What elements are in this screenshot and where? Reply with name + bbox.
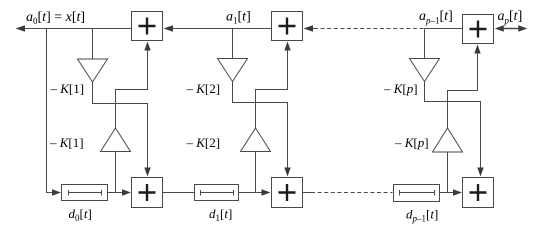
- arrowhead into adder L3 left: [453, 189, 462, 195]
- wire bottom line delay D0 to adder L1: [108, 192, 124, 194]
- delay D2 box: [394, 185, 440, 202]
- delay D0 symbol: [69, 190, 102, 196]
- delay D0 box: [62, 185, 108, 201]
- wire output a_p double arrow line: [498, 28, 524, 30]
- wire bottom line delay D2 to adder L3: [440, 192, 455, 194]
- arrowhead a_p double arrow right head: [518, 25, 527, 31]
- adder L3 plus: [470, 184, 487, 201]
- wire gain3 down output path: [425, 82, 481, 169]
- wire gain1 down output path: [93, 82, 148, 169]
- wire gain2 up output path: [256, 50, 288, 128]
- wire gain3 up output path: [448, 53, 478, 128]
- arrowhead down into adder L2 top: [284, 168, 290, 177]
- adder L3 box: [463, 178, 494, 208]
- svg-text:d0[t]: d0[t]: [69, 206, 92, 223]
- wire bottom line delay D1 to adder L2: [239, 192, 263, 194]
- wire gain1 up output path: [116, 50, 148, 128]
- adder U3 box: [463, 15, 494, 44]
- svg-text:– K[p]: – K[p]: [394, 135, 429, 150]
- gain -Kp up triangle: [433, 128, 463, 152]
- arrowhead down into adder L1 top: [144, 168, 150, 177]
- wire up-tap 1 into gain: [115, 152, 117, 193]
- arrowhead up into adder U3 bottom: [474, 45, 480, 54]
- arrowhead up into adder U1 bottom: [144, 42, 150, 51]
- wire top line left segment: [24, 28, 132, 30]
- arrowhead into adder U1 right: [164, 25, 174, 31]
- wire top line between adder U1 and U2: [172, 28, 271, 30]
- wire bottom line from left vertical to delay D0: [46, 192, 53, 194]
- svg-text:– K[1]: – K[1]: [49, 135, 84, 150]
- adder U2 plus: [279, 18, 296, 35]
- wire up-tap 2 into gain: [255, 152, 257, 193]
- arrowhead a_p double arrow left head: [495, 25, 504, 31]
- svg-text:ap[t]: ap[t]: [498, 9, 523, 26]
- wire top line into adder U3: [425, 28, 463, 30]
- svg-text:– K[2]: – K[2]: [186, 135, 221, 150]
- svg-text:– K[2]: – K[2]: [186, 81, 221, 96]
- wire up-tap 3 into gain: [447, 152, 449, 193]
- wire down-tap 3 into gain: [424, 29, 426, 59]
- adder U1 plus: [139, 18, 156, 35]
- svg-text:– K[1]: – K[1]: [50, 81, 85, 96]
- svg-text:a1[t]: a1[t]: [226, 10, 251, 26]
- wire bottom dashed line: [311, 192, 393, 194]
- delay D1 box: [195, 185, 239, 201]
- gain -K1 down triangle: [78, 59, 108, 82]
- adder L1 plus: [139, 184, 156, 201]
- arrowhead into delay D0 left: [52, 189, 61, 195]
- arrowhead a0 output left: [16, 25, 26, 31]
- wire down-tap 2 into gain: [232, 29, 234, 59]
- wire down-tap 1 into gain: [92, 29, 94, 60]
- adder L1 box: [132, 178, 163, 208]
- gain -K2 up triangle: [241, 128, 271, 152]
- svg-text:– K[p]: – K[p]: [383, 81, 418, 96]
- arrowhead into adder U2 right: [304, 25, 314, 31]
- adder L2 box: [272, 178, 303, 208]
- arrowhead down into adder L3 top: [477, 168, 483, 177]
- arrowhead into adder L2 left: [262, 189, 271, 195]
- arrowhead up into adder U2 bottom: [284, 42, 290, 51]
- gain -Kp down triangle: [410, 59, 440, 82]
- wire bottom line adder L1 to delay D1: [163, 192, 195, 194]
- wire bottom solid stub after adder L2: [303, 192, 312, 194]
- gain -K1 up triangle: [101, 128, 131, 152]
- wire gain2 down output path: [233, 82, 288, 170]
- adder U2 box: [272, 12, 303, 41]
- gain -K2 down triangle: [218, 59, 248, 82]
- adder U3 plus: [470, 21, 487, 38]
- adder U1 box: [132, 12, 163, 41]
- delay D1 symbol: [201, 190, 234, 196]
- adder L2 plus: [279, 184, 296, 201]
- wire top solid stub after adder U2: [311, 28, 314, 30]
- arrowhead into adder L1 left: [122, 189, 131, 195]
- wire top dashed line: [314, 28, 425, 30]
- delay D2 symbol: [400, 190, 435, 196]
- wire left vertical x=46.5: [46, 29, 48, 193]
- svg-text:d1[t]: d1[t]: [209, 206, 232, 223]
